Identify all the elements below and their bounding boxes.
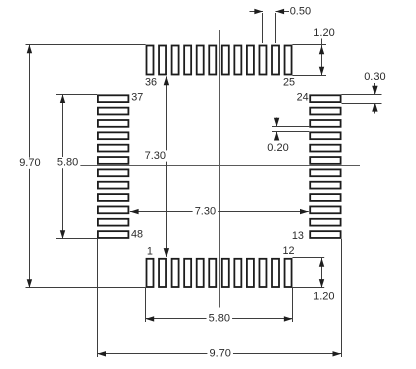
pad pin 27 (top row) — [259, 46, 266, 75]
dimension 7.30 (horizontal) line+arrows — [130, 211, 309, 213]
dimension 5.80 (bottom) line+arrows — [146, 318, 293, 320]
pad pin 19 (right column) — [310, 157, 340, 164]
svg-text:25: 25 — [283, 76, 295, 88]
pad pin 33 (top row) — [184, 46, 191, 75]
dimension label 5.80 (bottom) — [207, 313, 233, 324]
svg-text:37: 37 — [131, 92, 143, 104]
pad pin 8 (bottom row) — [234, 259, 241, 287]
dimension 0.30 line+arrows — [374, 83, 376, 94]
pad pin 21 (right column) — [310, 132, 340, 139]
dimension 9.70 (bottom) line+arrows — [97, 353, 341, 355]
dimension 5.80 (left) line+arrows — [62, 94, 64, 238]
pad pin 11 (bottom row) — [272, 259, 279, 287]
svg-text:1.20: 1.20 — [313, 291, 334, 303]
dimension 0.20 line+arrows — [276, 118, 278, 127]
vertical centerline — [219, 30, 221, 308]
pad pin 45 (left column) — [98, 194, 128, 201]
dimension 5.80 (bottom) extension lines — [145, 288, 147, 322]
pad pin 4 (bottom row) — [184, 259, 191, 287]
pad pin 3 (bottom row) — [172, 259, 179, 287]
dimension 0.20 extension lines — [272, 126, 309, 128]
pad pin 42 (left column) — [98, 157, 128, 164]
svg-text:13: 13 — [292, 230, 304, 242]
svg-text:1.20: 1.20 — [313, 27, 334, 39]
pad pin 24 (right column) — [310, 95, 340, 102]
pad pin 2 (bottom row) — [159, 259, 166, 287]
svg-text:48: 48 — [131, 229, 143, 241]
svg-text:36: 36 — [145, 77, 157, 89]
pad pin 22 (right column) — [310, 120, 340, 127]
dimension 0.50 extension line right — [275, 13, 277, 43]
pad pin 44 (left column) — [98, 182, 128, 189]
pad pin 38 (left column) — [98, 108, 128, 115]
pad pin 41 (left column) — [98, 145, 128, 152]
pad pin 5 (bottom row) — [197, 259, 204, 287]
pad pin 31 (top row) — [209, 46, 216, 75]
pad pin 15 (right column) — [310, 206, 340, 213]
pad pin 13 (right column) — [310, 231, 340, 238]
dimension 0.50 extension line left — [262, 13, 264, 43]
pad pin 43 (left column) — [98, 169, 128, 176]
pad pin 23 (right column) — [310, 108, 340, 115]
pad pin 10 (bottom row) — [259, 259, 266, 287]
pad pin 12 (bottom row) — [285, 259, 292, 287]
svg-text:9.70: 9.70 — [209, 348, 230, 360]
svg-text:0.20: 0.20 — [267, 142, 288, 154]
svg-text:12: 12 — [282, 245, 294, 257]
pad pin 17 (right column) — [310, 182, 340, 189]
pad pin 18 (right column) — [310, 169, 340, 176]
pad pin 26 (top row) — [272, 46, 279, 75]
pad pin 46 (left column) — [98, 206, 128, 213]
dimension label 5.80 (left) — [55, 157, 81, 168]
dimension 9.70 (left) line+arrows — [29, 45, 31, 288]
pad pin 48 (left column) — [98, 231, 128, 238]
pad pin 1 (bottom row) — [147, 259, 154, 287]
dimension 5.80 (left) extension lines — [56, 94, 97, 96]
pad pin 47 (left column) — [98, 219, 128, 226]
svg-text:7.30: 7.30 — [195, 206, 216, 218]
pad pin 36 (top row) — [147, 46, 154, 75]
pad pin 35 (top row) — [159, 46, 166, 75]
dimension 9.70 (left) extension lines — [26, 44, 146, 46]
svg-text:0.50: 0.50 — [290, 5, 311, 17]
svg-text:9.70: 9.70 — [19, 157, 40, 169]
pad pin 9 (bottom row) — [247, 259, 254, 287]
svg-text:5.80: 5.80 — [57, 157, 78, 169]
horizontal centerline — [79, 165, 361, 167]
dimension 9.70 (bottom) extension lines — [97, 239, 99, 357]
dimension 1.20 (top right) extension lines — [292, 44, 326, 46]
dimension 7.30 (vertical) line+arrows — [166, 76, 168, 257]
svg-text:5.80: 5.80 — [209, 313, 230, 325]
pad pin 34 (top row) — [172, 46, 179, 75]
pad pin 25 (top row) — [285, 46, 292, 75]
dimension 0.50 line+arrows — [249, 11, 263, 13]
pad pin 32 (top row) — [197, 46, 204, 75]
pad pin 16 (right column) — [310, 194, 340, 201]
dimension 1.20 (bottom right) line+arrows — [321, 258, 323, 288]
dimension label 7.30 (vertical) — [143, 150, 169, 161]
svg-text:24: 24 — [297, 92, 309, 104]
pad pin 14 (right column) — [310, 219, 340, 226]
svg-text:1: 1 — [147, 246, 153, 258]
dimension label 9.70 (left) — [17, 158, 43, 169]
dimension 1.20 (top right) line+arrows — [321, 39, 323, 76]
pad pin 28 (top row) — [247, 46, 254, 75]
dimension 0.30 extension lines — [342, 94, 382, 96]
svg-text:0.30: 0.30 — [364, 71, 385, 83]
dimension label 9.70 (bottom) — [207, 348, 233, 359]
pad pin 30 (top row) — [222, 46, 229, 75]
pad pin 20 (right column) — [310, 145, 340, 152]
pad pin 40 (left column) — [98, 132, 128, 139]
pad pin 29 (top row) — [234, 46, 241, 75]
pad pin 7 (bottom row) — [222, 259, 229, 287]
pad pin 6 (bottom row) — [209, 259, 216, 287]
pad pin 39 (left column) — [98, 120, 128, 127]
svg-text:7.30: 7.30 — [145, 150, 166, 162]
dimension label 7.30 (horizontal) — [193, 206, 219, 217]
pad pin 37 (left column) — [98, 95, 128, 102]
dimension 1.20 (bottom right) extension lines — [292, 257, 324, 259]
